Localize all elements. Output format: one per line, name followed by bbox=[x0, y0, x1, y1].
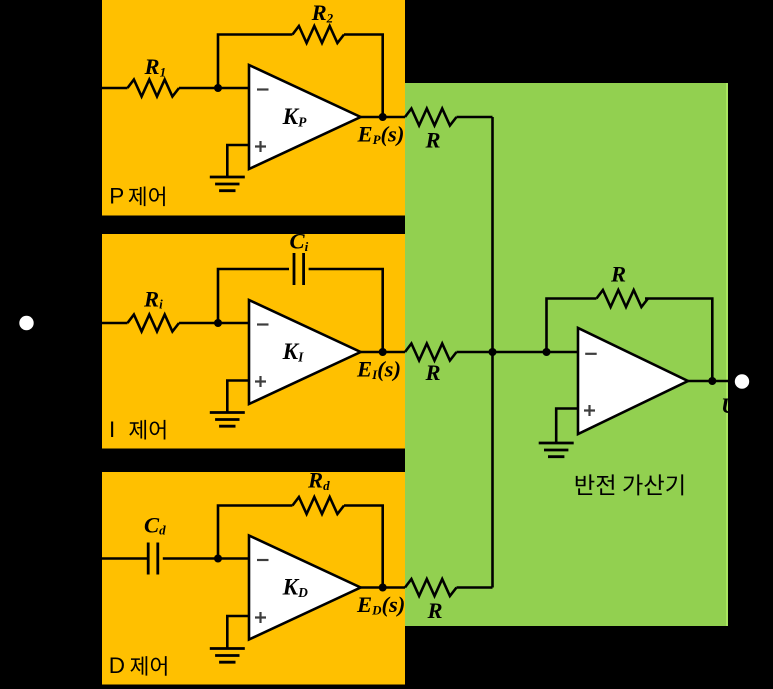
op-amp U4 (inverting adder) bbox=[578, 328, 688, 434]
resistor Ri bbox=[128, 315, 180, 332]
wire: D feedback up from node to Rd bbox=[218, 506, 293, 559]
U3 inverting input marker bbox=[257, 559, 269, 561]
svg-text:R: R bbox=[427, 598, 443, 623]
svg-text:R: R bbox=[425, 128, 441, 153]
I control panel bbox=[102, 234, 405, 449]
ground (I) bbox=[210, 413, 245, 427]
wire: P feedback up from node to R2 bbox=[218, 35, 293, 89]
wire: P input to R1 bbox=[102, 87, 128, 90]
svg-text:EI(s): EI(s) bbox=[356, 357, 401, 382]
node EI(s) bbox=[379, 348, 387, 356]
ground (adder) bbox=[539, 443, 574, 457]
resistor R (adder feedback) bbox=[597, 290, 649, 307]
wire: Ci to I output node bbox=[309, 269, 383, 352]
node: I summing junction bbox=[214, 319, 222, 327]
output terminal node bbox=[735, 374, 749, 388]
ground (P) bbox=[210, 177, 245, 191]
node ED(s) bbox=[379, 584, 387, 592]
ground (D) bbox=[210, 649, 245, 663]
node: summing bus junction bbox=[489, 348, 497, 356]
caption inverting adder bbox=[576, 474, 683, 495]
resistor R2 bbox=[293, 26, 345, 43]
caption P jeeo bbox=[129, 187, 165, 207]
U2 inverting input marker bbox=[257, 323, 269, 325]
svg-text:U: U bbox=[721, 393, 739, 418]
wire: adder output bbox=[688, 380, 728, 383]
wire: op-amp U2 output bbox=[361, 351, 405, 354]
op-amp U1 (P) bbox=[249, 65, 361, 169]
wire: I branch R to adder inverting input bbox=[457, 351, 579, 354]
resistor R (I branch) bbox=[405, 344, 457, 361]
wire: U3 + input to ground bbox=[227, 616, 249, 649]
wire: Ri to op-amp U2 inverting input bbox=[179, 322, 249, 325]
svg-text:ED(s): ED(s) bbox=[356, 592, 405, 617]
wire: U4 + input to ground bbox=[556, 409, 578, 444]
wire: R1 to op-amp U1 inverting input bbox=[179, 87, 249, 90]
wire: D branch R to summing bus bbox=[457, 586, 493, 589]
svg-text:P: P bbox=[109, 184, 124, 209]
wire: P branch R to summing bus bbox=[457, 116, 493, 119]
D control panel bbox=[102, 472, 405, 685]
resistor R1 bbox=[128, 80, 180, 97]
U4 non-inverting input marker bbox=[584, 405, 595, 416]
adder panel right highlight edge bbox=[726, 83, 728, 626]
caption D jeeo bbox=[130, 656, 166, 676]
op-amp U2 (I) bbox=[249, 300, 361, 404]
wire: adder feedback tap up to R bbox=[547, 299, 597, 353]
U1 non-inverting input marker bbox=[255, 141, 266, 152]
svg-text:R: R bbox=[425, 360, 441, 385]
wire: U1 + input to ground bbox=[227, 145, 249, 177]
wire: Rd to D output node bbox=[344, 506, 383, 588]
resistor R (P branch) bbox=[405, 109, 457, 126]
U1 inverting input marker bbox=[257, 88, 269, 90]
svg-text:I: I bbox=[109, 417, 115, 442]
svg-text:D: D bbox=[109, 653, 125, 678]
inverting adder panel bbox=[405, 83, 728, 626]
op-amp U3 (D) bbox=[249, 536, 361, 640]
U4 inverting input marker bbox=[585, 353, 597, 355]
node: output junction bbox=[708, 377, 716, 385]
capacitor Ci bbox=[294, 253, 304, 285]
wire: I input to Ri bbox=[102, 322, 128, 325]
U2 non-inverting input marker bbox=[255, 376, 266, 387]
wire: summing bus vertical bbox=[491, 117, 494, 588]
caption I jeeo bbox=[129, 420, 165, 440]
wire: U2 + input to ground bbox=[227, 381, 249, 413]
svg-text:EP(s): EP(s) bbox=[357, 122, 405, 147]
wire: feedback R to output node bbox=[645, 299, 712, 382]
wire: op-amp U3 output bbox=[361, 586, 405, 589]
wire: Cd to op-amp U3 inverting input bbox=[163, 557, 249, 560]
node: feedback tap junction bbox=[543, 348, 551, 356]
node EP(s) bbox=[379, 113, 387, 121]
P control panel bbox=[102, 0, 405, 216]
capacitor Cd bbox=[148, 543, 158, 575]
wire: D input to Cd bbox=[102, 557, 148, 560]
svg-text:R: R bbox=[610, 262, 626, 287]
node: P summing junction bbox=[214, 84, 222, 92]
wire: I feedback up from node to Ci bbox=[218, 269, 289, 323]
U3 non-inverting input marker bbox=[255, 612, 266, 623]
resistor R (D branch) bbox=[405, 579, 457, 596]
wire: R2 to P output node bbox=[344, 35, 383, 118]
resistor Rd bbox=[293, 497, 345, 514]
node: D summing junction bbox=[214, 555, 222, 563]
wire: op-amp U1 output bbox=[361, 116, 405, 119]
input terminal node bbox=[19, 316, 33, 330]
